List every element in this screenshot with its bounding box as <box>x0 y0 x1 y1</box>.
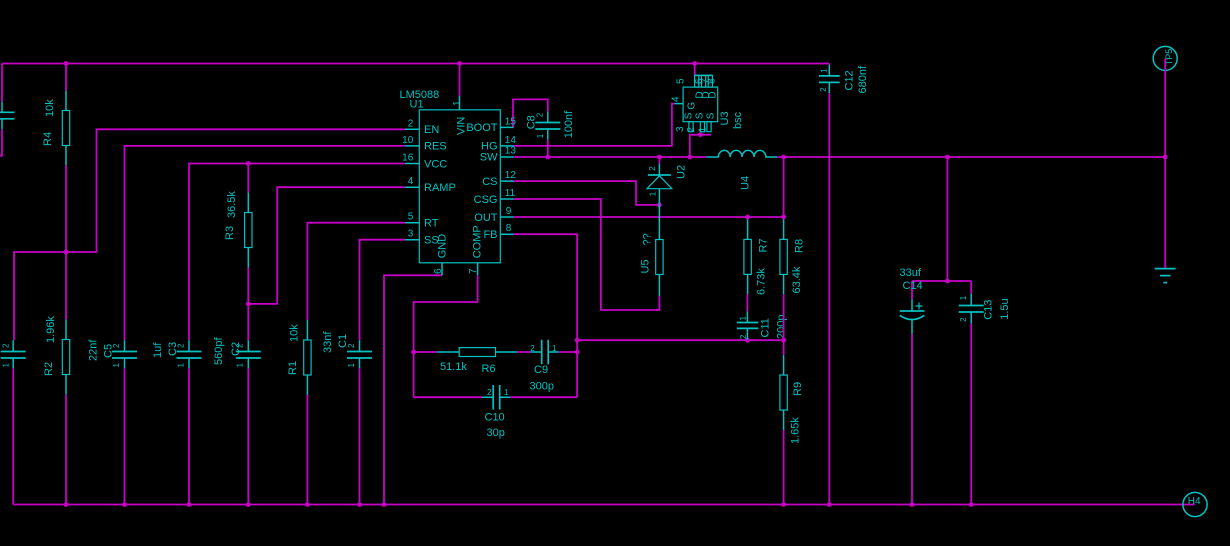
resistor R8 <box>780 219 806 294</box>
svg-text:560pf: 560pf <box>213 337 225 365</box>
svg-text:U3: U3 <box>719 111 731 125</box>
svg-text:R8: R8 <box>794 239 806 253</box>
svg-text:RT: RT <box>424 218 439 230</box>
capacitor C14 (33uf polarized) <box>900 267 925 334</box>
svg-text:D: D <box>708 91 719 98</box>
wire OUT net <box>513 216 784 218</box>
svg-text:22nf: 22nf <box>88 339 100 361</box>
svg-text:S: S <box>684 112 695 119</box>
svg-text:U2: U2 <box>676 165 688 179</box>
svg-text:10: 10 <box>402 135 414 146</box>
resistor R1 <box>287 320 311 395</box>
svg-text:9: 9 <box>506 206 512 217</box>
svg-text:U5: U5 <box>640 259 652 273</box>
svg-text:33uf: 33uf <box>900 267 922 279</box>
svg-text:SW: SW <box>480 152 498 164</box>
svg-text:R7: R7 <box>758 238 770 252</box>
node SW junctions <box>545 155 550 160</box>
svg-text:S: S <box>706 112 717 119</box>
wire C14 to ground rail <box>911 334 913 505</box>
node VIN rail junctions <box>64 61 69 66</box>
capacitor C11 <box>737 311 788 339</box>
capacitor C3 <box>152 340 202 368</box>
wire C8 to SW <box>547 140 549 157</box>
svg-text:H4: H4 <box>1188 496 1201 507</box>
wire GND pin net <box>384 275 442 504</box>
svg-text:2: 2 <box>819 87 828 92</box>
svg-text:bsc: bsc <box>732 111 744 129</box>
svg-text:15: 15 <box>505 116 517 127</box>
svg-text:63.4k: 63.4k <box>791 266 803 293</box>
node COMP/R6 junction <box>411 350 416 355</box>
svg-text:COMP: COMP <box>471 225 483 258</box>
node OUT junctions <box>745 215 750 220</box>
resistor R7 <box>744 217 770 295</box>
svg-text:EN: EN <box>424 124 439 136</box>
capacitor C6 (bottom-left, name off-screen) <box>1 340 26 368</box>
svg-text:2: 2 <box>959 317 968 322</box>
svg-text:2: 2 <box>530 344 535 353</box>
test point TP5 <box>1153 46 1177 70</box>
svg-text:GND: GND <box>437 234 449 259</box>
wire R8 to FB line <box>783 294 785 355</box>
node RAMP junction <box>246 302 251 307</box>
wire C2 to ground rail <box>247 368 249 504</box>
svg-text:1: 1 <box>236 363 245 368</box>
capacitor C13 <box>959 294 1011 324</box>
svg-text:12: 12 <box>505 170 517 181</box>
capacitor C10 <box>482 385 510 439</box>
svg-text:VCC: VCC <box>424 158 447 170</box>
wire ground rail (bottom) <box>13 504 1195 506</box>
wire CSG net <box>513 199 659 310</box>
wire COMP net <box>414 275 483 397</box>
svg-text:680nf: 680nf <box>857 65 869 93</box>
wire EN net <box>14 129 405 340</box>
svg-text:2: 2 <box>686 127 697 133</box>
svg-text:51.1k: 51.1k <box>440 361 467 373</box>
svg-text:C12: C12 <box>844 70 856 90</box>
svg-text:RAMP: RAMP <box>424 182 456 194</box>
svg-text:2: 2 <box>487 388 492 397</box>
svg-text:CSG: CSG <box>474 194 498 206</box>
svg-text:C5: C5 <box>103 344 115 358</box>
svg-text:R4: R4 <box>42 132 54 146</box>
capacitor C2 <box>213 337 261 369</box>
svg-text:3: 3 <box>675 126 686 132</box>
wire C6 to ground rail <box>12 368 14 504</box>
svg-text:1.5u: 1.5u <box>999 298 1011 319</box>
svg-text:VIN: VIN <box>456 117 468 135</box>
svg-text:3: 3 <box>408 229 414 240</box>
svg-text:8: 8 <box>506 223 512 234</box>
transistor U3 (bsc MOSFET) <box>671 75 745 132</box>
wire C10 to FB column <box>510 396 577 398</box>
wire C12 to ground rail <box>828 93 830 504</box>
svg-text:FB: FB <box>483 229 497 241</box>
svg-text:??: ?? <box>642 233 654 245</box>
op-amp U1 LM5088 controller IC <box>400 89 517 275</box>
capacitor C12 <box>819 64 869 94</box>
svg-text:2: 2 <box>408 118 414 129</box>
wire C13 to ground rail <box>970 324 972 505</box>
svg-text:200p: 200p <box>776 315 788 339</box>
capacitor C5 <box>88 339 138 369</box>
wire C1 to ground rail <box>359 368 361 504</box>
svg-text:1: 1 <box>2 363 11 368</box>
svg-text:RES: RES <box>424 141 447 153</box>
node ground rail junctions <box>64 502 69 507</box>
svg-text:1: 1 <box>552 344 557 353</box>
diode U2 <box>647 164 688 205</box>
svg-text:2: 2 <box>2 343 11 348</box>
mounting hole H4 <box>1183 492 1207 516</box>
wire TP5 to ground symbol <box>1164 58 1166 268</box>
svg-text:30p: 30p <box>487 427 505 439</box>
wire R6 to C9 <box>518 351 531 353</box>
svg-text:5: 5 <box>675 78 686 84</box>
svg-text:2: 2 <box>648 166 657 171</box>
svg-text:14: 14 <box>505 135 517 146</box>
svg-text:R9: R9 <box>792 382 804 396</box>
svg-text:11: 11 <box>505 188 516 199</box>
wire C5 to ground rail <box>124 368 126 504</box>
ground <box>1155 269 1176 283</box>
node FB junctions <box>575 338 580 343</box>
resistor R3 <box>224 191 252 268</box>
wire R2 to ground rail <box>65 395 67 505</box>
wire R9 to ground rail <box>783 430 785 505</box>
inductor U4 <box>707 150 778 190</box>
svg-text:S: S <box>695 112 706 119</box>
node VOUT junctions <box>781 155 786 160</box>
svg-text:33nf: 33nf <box>322 331 334 353</box>
svg-text:6.73k: 6.73k <box>756 268 768 295</box>
svg-text:C3: C3 <box>167 342 179 356</box>
svg-text:1uf: 1uf <box>152 342 164 358</box>
wire RES net <box>125 146 406 340</box>
svg-text:C14: C14 <box>903 280 923 292</box>
node EN junction <box>64 250 69 255</box>
svg-text:C2: C2 <box>230 342 242 356</box>
resistor R4 <box>42 91 70 166</box>
wire RAMP net <box>248 187 405 340</box>
svg-text:4: 4 <box>671 96 682 102</box>
resistor U5 (current sense, value ??) <box>640 205 664 296</box>
svg-text:1: 1 <box>698 127 709 133</box>
svg-text:5: 5 <box>408 212 414 223</box>
svg-text:1: 1 <box>820 68 829 73</box>
svg-text:300p: 300p <box>530 381 554 393</box>
svg-text:BOOT: BOOT <box>466 122 497 134</box>
svg-text:1: 1 <box>176 363 185 368</box>
svg-text:1: 1 <box>739 316 748 321</box>
resistor R6 <box>437 348 518 375</box>
svg-text:13: 13 <box>505 146 517 157</box>
wire SW net <box>514 135 712 164</box>
wire SS net <box>360 240 406 341</box>
resistor R2 <box>43 316 70 395</box>
svg-text:1.96k: 1.96k <box>45 316 57 343</box>
svg-text:36.5k: 36.5k <box>226 191 238 218</box>
svg-text:8: 8 <box>706 78 717 84</box>
wire C3 to ground rail <box>188 368 190 504</box>
svg-text:C8: C8 <box>526 115 538 129</box>
svg-text:U4: U4 <box>740 176 752 190</box>
wire R1 to ground rail <box>306 395 308 505</box>
svg-text:CS: CS <box>482 176 497 188</box>
svg-text:C9: C9 <box>534 364 548 376</box>
svg-text:1: 1 <box>649 191 658 196</box>
svg-text:OUT: OUT <box>474 212 498 224</box>
capacitor C1 <box>322 331 372 369</box>
svg-text:1: 1 <box>959 295 968 300</box>
wire RT net <box>307 223 405 320</box>
wire VCC net <box>189 164 405 341</box>
capacitor C9 <box>530 340 559 393</box>
capacitor input cap (left edge, partially visible) <box>0 102 15 130</box>
svg-text:16: 16 <box>402 153 414 164</box>
svg-text:1: 1 <box>504 388 509 397</box>
svg-text:1: 1 <box>536 133 545 138</box>
svg-text:R6: R6 <box>482 363 496 375</box>
svg-text:U1: U1 <box>410 99 424 111</box>
wire C9 to FB column <box>559 351 577 353</box>
svg-text:100nf: 100nf <box>563 110 575 138</box>
svg-text:G: G <box>687 102 698 110</box>
resistor R9 <box>780 355 804 444</box>
svg-text:1: 1 <box>347 363 356 368</box>
svg-text:1: 1 <box>112 363 121 368</box>
svg-text:10k: 10k <box>289 324 301 342</box>
svg-text:10k: 10k <box>44 99 56 117</box>
svg-text:6: 6 <box>433 268 444 274</box>
svg-text:1: 1 <box>452 100 463 106</box>
svg-text:4: 4 <box>408 176 414 187</box>
svg-text:2: 2 <box>739 334 748 339</box>
svg-text:1.65k: 1.65k <box>790 417 802 444</box>
wire FB net <box>513 234 784 397</box>
svg-text:C11: C11 <box>760 318 772 337</box>
node VCC/R3 junction <box>246 161 251 166</box>
svg-text:C1: C1 <box>337 334 349 348</box>
wire R7 to C11 <box>746 294 748 311</box>
svg-text:7: 7 <box>468 268 479 274</box>
svg-text:C10: C10 <box>485 412 505 424</box>
svg-text:C13: C13 <box>983 300 995 320</box>
svg-text:R2: R2 <box>43 362 55 376</box>
svg-text:R1: R1 <box>287 361 299 375</box>
wire VOUT net <box>777 157 1165 300</box>
svg-text:R3: R3 <box>224 226 236 240</box>
wire CS net <box>513 181 659 205</box>
wire BOOT net <box>513 99 548 127</box>
wire HG net <box>514 104 675 146</box>
node CS/diode junction <box>657 203 662 208</box>
capacitor C8 <box>526 110 576 140</box>
wire VIN top rail <box>0 64 829 156</box>
